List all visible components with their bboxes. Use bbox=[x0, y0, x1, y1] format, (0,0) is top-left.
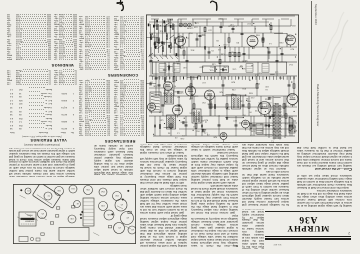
svg-text:C22: C22 bbox=[265, 85, 270, 87]
svg-text:R14: R14 bbox=[177, 62, 182, 64]
svg-text:S1: S1 bbox=[166, 19, 169, 21]
svg-text:R18: R18 bbox=[272, 111, 277, 113]
svg-text:L3: L3 bbox=[227, 75, 230, 77]
svg-text:L8: L8 bbox=[76, 202, 79, 204]
svg-text:R6: R6 bbox=[260, 129, 263, 131]
svg-text:R23: R23 bbox=[159, 40, 164, 42]
svg-text:V3: V3 bbox=[118, 226, 121, 228]
svg-text:R17: R17 bbox=[247, 22, 252, 24]
svg-text:S3: S3 bbox=[218, 48, 221, 50]
svg-text:L11: L11 bbox=[233, 24, 237, 26]
svg-text:SPEAKER: SPEAKER bbox=[24, 220, 34, 223]
svg-text:L12: L12 bbox=[202, 81, 206, 83]
svg-text:R18: R18 bbox=[242, 87, 247, 89]
svg-text:R12: R12 bbox=[290, 37, 295, 39]
svg-text:C20: C20 bbox=[195, 21, 200, 23]
svg-text:C8: C8 bbox=[207, 133, 210, 135]
svg-text:C30: C30 bbox=[69, 217, 74, 219]
svg-text:C46: C46 bbox=[211, 63, 216, 65]
svg-text:VOL.: VOL. bbox=[209, 69, 214, 71]
svg-text:C42: C42 bbox=[194, 95, 199, 97]
svg-text:S4: S4 bbox=[167, 132, 170, 134]
svg-text:L12: L12 bbox=[274, 70, 278, 72]
svg-text:C58: C58 bbox=[194, 26, 199, 28]
svg-text:C55: C55 bbox=[232, 67, 237, 69]
svg-text:C50: C50 bbox=[159, 118, 164, 120]
svg-text:R5: R5 bbox=[231, 51, 234, 53]
svg-text:C33: C33 bbox=[100, 204, 105, 206]
svg-text:L10: L10 bbox=[258, 101, 262, 103]
svg-text:C20: C20 bbox=[179, 91, 184, 93]
svg-text:C7: C7 bbox=[290, 130, 293, 132]
svg-text:R3: R3 bbox=[236, 41, 239, 43]
svg-text:R21: R21 bbox=[165, 83, 170, 85]
svg-text:L6: L6 bbox=[265, 88, 268, 90]
svg-text:C53: C53 bbox=[223, 43, 228, 45]
svg-text:C42: C42 bbox=[189, 91, 194, 93]
svg-text:L10: L10 bbox=[152, 35, 156, 37]
svg-text:T2: T2 bbox=[47, 194, 50, 196]
svg-text:R27: R27 bbox=[290, 48, 295, 50]
svg-text:R26: R26 bbox=[264, 98, 269, 100]
svg-text:C7: C7 bbox=[239, 65, 242, 67]
svg-text:C36: C36 bbox=[153, 85, 158, 87]
svg-text:C53: C53 bbox=[219, 17, 224, 19]
svg-text:C45: C45 bbox=[106, 213, 111, 215]
svg-text:C3: C3 bbox=[174, 136, 177, 138]
svg-text:C31: C31 bbox=[171, 80, 176, 82]
svg-text:C1: C1 bbox=[182, 134, 185, 136]
svg-text:R17: R17 bbox=[201, 34, 206, 36]
svg-text:R21: R21 bbox=[195, 129, 200, 131]
svg-text:R2: R2 bbox=[242, 113, 245, 115]
svg-text:L4: L4 bbox=[193, 125, 196, 127]
svg-text:C/W: C/W bbox=[224, 65, 228, 67]
svg-text:R35: R35 bbox=[249, 92, 254, 94]
svg-text:C46: C46 bbox=[180, 137, 185, 139]
svg-text:R29: R29 bbox=[231, 80, 236, 82]
svg-text:V4: V4 bbox=[131, 228, 134, 230]
svg-text:L7: L7 bbox=[250, 133, 253, 135]
svg-text:C8: C8 bbox=[216, 39, 219, 41]
svg-text:C17: C17 bbox=[169, 117, 174, 119]
svg-text:C50: C50 bbox=[202, 101, 207, 103]
svg-text:C52: C52 bbox=[114, 194, 119, 196]
svg-text:R2: R2 bbox=[248, 128, 251, 130]
svg-text:C11: C11 bbox=[284, 122, 288, 124]
svg-text:C25: C25 bbox=[189, 112, 194, 114]
svg-text:C55: C55 bbox=[241, 59, 246, 61]
svg-text:C28: C28 bbox=[189, 27, 194, 29]
svg-text:C57: C57 bbox=[208, 29, 213, 31]
svg-text:C12: C12 bbox=[168, 21, 173, 23]
svg-text:C61: C61 bbox=[70, 187, 75, 189]
svg-text:C41: C41 bbox=[204, 96, 209, 98]
svg-text:C27: C27 bbox=[280, 77, 285, 79]
svg-text:C38: C38 bbox=[163, 92, 168, 94]
svg-text:C34: C34 bbox=[221, 53, 226, 55]
svg-text:C33: C33 bbox=[162, 54, 167, 56]
svg-text:R26: R26 bbox=[201, 130, 206, 132]
svg-text:C1: C1 bbox=[259, 72, 262, 74]
svg-text:C27: C27 bbox=[151, 75, 156, 77]
svg-text:R33: R33 bbox=[256, 34, 261, 36]
svg-text:V5: V5 bbox=[41, 212, 44, 214]
svg-text:V4: V4 bbox=[209, 100, 213, 102]
svg-text:R11: R11 bbox=[159, 29, 163, 31]
svg-text:R7: R7 bbox=[248, 110, 251, 112]
svg-text:V1: V1 bbox=[120, 203, 123, 205]
svg-text:C58: C58 bbox=[158, 110, 163, 112]
svg-text:R15: R15 bbox=[266, 104, 271, 106]
svg-text:L3: L3 bbox=[255, 74, 258, 76]
svg-text:R20: R20 bbox=[246, 99, 251, 101]
svg-text:C11: C11 bbox=[157, 76, 161, 78]
svg-text:C14: C14 bbox=[289, 63, 294, 65]
svg-text:TUN.: TUN. bbox=[223, 69, 228, 71]
svg-text:T1: T1 bbox=[271, 140, 274, 142]
svg-text:R14: R14 bbox=[256, 82, 261, 84]
svg-text:C22: C22 bbox=[255, 109, 260, 111]
svg-text:C25: C25 bbox=[207, 103, 212, 105]
svg-text:C60: C60 bbox=[56, 189, 61, 191]
svg-text:C54: C54 bbox=[100, 190, 105, 192]
svg-text:C3: C3 bbox=[287, 33, 290, 35]
svg-text:C9: C9 bbox=[27, 189, 30, 191]
svg-text:L13: L13 bbox=[232, 54, 236, 56]
svg-text:LS: LS bbox=[294, 129, 297, 131]
svg-text:C55: C55 bbox=[85, 188, 90, 190]
svg-text:R27: R27 bbox=[233, 119, 238, 121]
svg-text:L6: L6 bbox=[269, 42, 272, 44]
svg-text:V2: V2 bbox=[126, 216, 129, 218]
svg-text:R30: R30 bbox=[195, 117, 200, 119]
svg-text:C40: C40 bbox=[183, 66, 188, 68]
svg-text:L9: L9 bbox=[186, 37, 189, 39]
svg-text:C40: C40 bbox=[260, 123, 265, 125]
svg-text:R31: R31 bbox=[280, 116, 285, 118]
svg-text:C19: C19 bbox=[267, 101, 272, 103]
svg-text:R5: R5 bbox=[275, 129, 278, 131]
svg-text:R29: R29 bbox=[199, 66, 204, 68]
svg-text:S2: S2 bbox=[231, 92, 234, 94]
svg-text:R25: R25 bbox=[219, 91, 224, 93]
svg-text:R35: R35 bbox=[226, 108, 231, 110]
svg-text:L2: L2 bbox=[167, 125, 170, 127]
svg-text:V3: V3 bbox=[190, 96, 194, 98]
svg-text:C34: C34 bbox=[240, 100, 245, 102]
svg-text:L7: L7 bbox=[217, 114, 220, 116]
svg-text:C48: C48 bbox=[279, 41, 284, 43]
svg-text:C5: C5 bbox=[211, 49, 214, 51]
svg-text:C44: C44 bbox=[273, 102, 278, 104]
svg-text:C9: C9 bbox=[177, 36, 180, 38]
svg-text:R31: R31 bbox=[190, 48, 195, 50]
svg-text:R3: R3 bbox=[177, 96, 180, 98]
svg-text:C14: C14 bbox=[207, 94, 212, 96]
svg-text:V2: V2 bbox=[252, 46, 256, 48]
svg-text:C48: C48 bbox=[162, 68, 167, 70]
svg-text:L2: L2 bbox=[179, 105, 182, 107]
svg-text:V1: V1 bbox=[180, 46, 184, 48]
svg-text:L5: L5 bbox=[174, 68, 177, 70]
svg-text:MR1: MR1 bbox=[290, 103, 296, 105]
svg-text:R15: R15 bbox=[188, 32, 193, 34]
svg-text:S4: S4 bbox=[198, 74, 201, 76]
svg-text:C38: C38 bbox=[285, 104, 290, 106]
svg-text:R25: R25 bbox=[291, 24, 296, 26]
svg-text:R9: R9 bbox=[173, 84, 176, 86]
svg-text:R12: R12 bbox=[176, 108, 181, 110]
svg-text:L5: L5 bbox=[177, 132, 180, 134]
svg-text:C12: C12 bbox=[250, 96, 255, 98]
svg-text:P.U.: P.U. bbox=[210, 65, 214, 67]
svg-text:V5: V5 bbox=[264, 114, 268, 116]
svg-text:R20: R20 bbox=[213, 136, 218, 138]
svg-text:L4: L4 bbox=[150, 81, 153, 83]
svg-text:C36: C36 bbox=[232, 88, 237, 90]
svg-text:R23: R23 bbox=[204, 118, 209, 120]
